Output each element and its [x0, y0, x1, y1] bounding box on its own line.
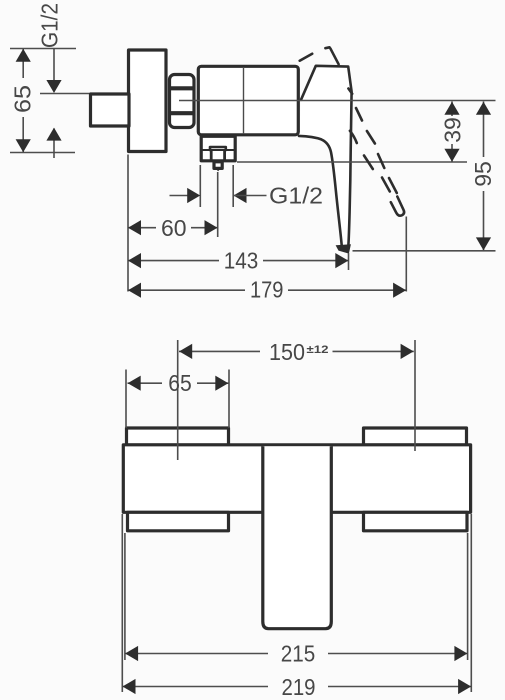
extension line: 215 left [124, 533, 126, 660]
svg-text:±12: ±12 [307, 344, 329, 356]
label 65 (rotated) [10, 85, 36, 113]
dim 179 arrow right [393, 283, 406, 298]
dimension 65 line (bottom view) [128, 382, 229, 384]
extension line: 219 right [470, 514, 472, 692]
dashed lever end cap [391, 197, 404, 216]
extension line: outlet left edge down [199, 165, 201, 207]
dashed raised-handle head dash 2 [325, 46, 329, 50]
extension line: left union centre [177, 340, 179, 460]
mixer body bar [123, 445, 470, 513]
G1/2 outlet left leader [170, 195, 199, 197]
handle corner mark [348, 89, 352, 94]
centre axis line [179, 100, 496, 102]
extension line: left union left edge [125, 370, 127, 429]
label 179 [250, 277, 284, 303]
right union escutcheon bottom lip [364, 512, 468, 531]
handle head outline [301, 66, 352, 247]
G1/2 leader line (inlet) [53, 49, 55, 159]
dim 219 arrow right [458, 679, 471, 694]
outlet nut left facet line [210, 150, 213, 160]
label plus/minus 12 superscript [307, 344, 329, 356]
outlet internal horizontal line [202, 149, 235, 151]
dimension 95 line [483, 102, 485, 251]
dim 150 arrow left [179, 344, 192, 359]
extension line: right union centre [414, 340, 416, 451]
extension line: lever tip level, right [353, 250, 496, 252]
extension line: left union right edge [228, 370, 230, 429]
dashed lever inner line [350, 131, 390, 192]
dim 95 arrow down [476, 237, 491, 250]
dim 215 arrow left [125, 646, 138, 661]
extension line: outlet right edge down [232, 165, 234, 207]
outlet raised centre [210, 147, 226, 150]
label 219 [282, 674, 316, 700]
extension line: escutcheon bottom, left [10, 152, 75, 154]
extension line: escutcheon top, left [10, 48, 76, 50]
dim 65 arrow left [128, 376, 141, 391]
dashed raised-handle head dash 3 [330, 48, 338, 64]
dim 39 arrow down [444, 149, 459, 162]
dim 65 arrow up [16, 49, 31, 62]
dashed raised-handle head dash 1 [300, 54, 313, 61]
dim 215 arrow right [454, 646, 467, 661]
label 39 (rotated) [439, 117, 465, 143]
label 143 [224, 248, 259, 274]
label 215 [281, 641, 316, 667]
extension line: outlet centre down [217, 172, 219, 237]
dashed lever outer line [356, 108, 397, 193]
svg-text:179: 179 [250, 277, 284, 303]
label 60 [161, 215, 187, 241]
dim 143 arrow right [335, 253, 348, 268]
outlet nipple tip [215, 168, 220, 171]
svg-text:150: 150 [269, 339, 305, 365]
dimension 65 line (vertical, left) [22, 49, 24, 152]
G1/2 outlet right leader [234, 195, 267, 197]
svg-text:215: 215 [281, 641, 316, 667]
union nut [170, 75, 195, 128]
svg-text:143: 143 [224, 248, 259, 274]
label 65 (bottom view) [168, 370, 192, 396]
svg-text:39: 39 [439, 117, 465, 143]
G1/2 outlet right arrow [234, 188, 247, 203]
outlet nipple [214, 162, 222, 169]
dim 60 arrow left [128, 220, 141, 235]
dim 60 arrow right [205, 220, 218, 235]
dim 143 arrow left [128, 253, 141, 268]
outlet nut right facet line [223, 150, 226, 160]
G1/2 inlet arrow down [46, 80, 61, 93]
dimension 39 line [451, 102, 453, 162]
wall escutcheon [129, 50, 167, 152]
dim 150 arrow right [401, 344, 414, 359]
inlet square fitting [91, 94, 130, 126]
label G1/2 (rotated) [37, 3, 63, 48]
dim 179 arrow left [128, 283, 141, 298]
svg-text:95: 95 [470, 161, 496, 187]
dim 219 arrow left [123, 679, 136, 694]
G1/2 outlet left arrow [187, 188, 200, 203]
svg-text:219: 219 [282, 674, 316, 700]
dimension 143 line [128, 260, 349, 262]
dimension 179 line [128, 289, 406, 291]
label 150 [269, 339, 305, 365]
extension line: inlet top, left [40, 93, 89, 95]
shower outlet box [201, 136, 235, 161]
dimension 60 line [128, 227, 218, 229]
right union escutcheon top lip [364, 428, 467, 445]
extension line: 215 right [467, 533, 469, 660]
union nut chamfer band lower [170, 111, 195, 115]
G1/2 inlet arrow up [46, 128, 61, 141]
dim 95 arrow up [476, 102, 491, 115]
label 95 (rotated) [470, 161, 496, 187]
svg-text:60: 60 [161, 215, 187, 241]
left union escutcheon bottom lip [128, 512, 229, 531]
handle (solid lever) fill [299, 66, 352, 247]
dimension 150 line [179, 350, 414, 352]
dim 39 arrow up [444, 102, 459, 115]
label G1/2 (outlet) [269, 183, 323, 209]
extension line: 219 left [121, 514, 123, 692]
dim 65 arrow down [16, 139, 31, 152]
handle underside / blade inner edge [299, 136, 342, 247]
svg-text:G1/2: G1/2 [37, 3, 63, 48]
valve body [198, 66, 298, 135]
handle (front view, pointing down) [263, 446, 332, 629]
extension line: dashed lever tip down [405, 217, 407, 292]
extension line: outlet bottom level, right [237, 161, 467, 163]
body internal line [243, 67, 245, 134]
handle tip (black foot) [336, 244, 351, 253]
dimension 219 line [122, 686, 471, 688]
dimension 215 line [125, 653, 468, 655]
extension line: lever tip down [348, 253, 350, 270]
left union escutcheon top lip [127, 428, 229, 445]
dim 65 arrow right [215, 376, 228, 391]
svg-text:65: 65 [168, 370, 192, 396]
union nut chamfer band upper [170, 86, 195, 90]
extension line: escutcheon face down [127, 155, 129, 292]
svg-text:G1/2: G1/2 [269, 183, 323, 209]
svg-text:65: 65 [10, 85, 36, 113]
